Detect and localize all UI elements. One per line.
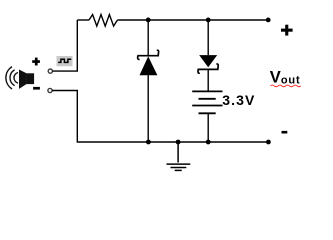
- output terminal plus (dot): [266, 18, 271, 23]
- wire: diode to battery: [207, 69, 209, 91]
- wire: zener branch lower: [147, 75, 149, 142]
- wire: battery to bottom rail: [207, 113, 209, 142]
- terminal circle minus input: [48, 88, 52, 92]
- output minus label: [282, 131, 288, 134]
- wire: top rail: [117, 19, 268, 21]
- node: top rail / diode branch: [206, 18, 211, 23]
- node: top rail / zener: [146, 18, 151, 23]
- ideal diode cathode bar: [198, 64, 218, 73]
- svg-text:3.3V: 3.3V: [222, 92, 255, 108]
- wire: top rail left lead: [77, 19, 89, 21]
- output plus label: [281, 25, 293, 36]
- input minus label: [33, 87, 40, 90]
- ideal diode triangle: [199, 55, 217, 67]
- input plus label: [32, 58, 40, 66]
- resistor: [89, 15, 117, 27]
- ground: [167, 142, 191, 170]
- svg-text:Vout: Vout: [270, 69, 301, 87]
- speaker icon: [6, 67, 34, 89]
- output terminal minus (dot): [266, 140, 271, 145]
- node: bottom rail / zener: [146, 140, 151, 145]
- zener diode cathode bar: [138, 50, 159, 59]
- node: bottom rail / battery: [206, 140, 211, 145]
- battery 3.3V: [192, 91, 222, 113]
- terminal circle plus input: [48, 69, 52, 73]
- wire: plus input to top-left corner: [52, 20, 77, 71]
- wire: minus input down to bottom rail: [52, 91, 268, 143]
- wire: zener branch upper: [147, 20, 149, 56]
- wire: diode branch upper: [207, 20, 209, 55]
- spellcheck squiggle under Vout: [271, 85, 301, 87]
- pulse source icon: [57, 56, 73, 66]
- zener diode triangle: [140, 56, 158, 75]
- node: bottom rail / ground: [176, 140, 181, 145]
